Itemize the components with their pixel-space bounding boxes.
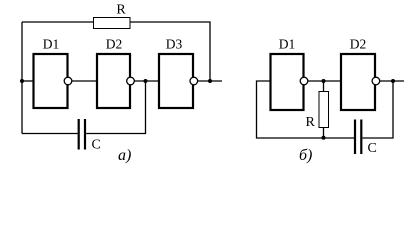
svg-text:C: C — [92, 138, 101, 153]
resistor R (right circuit) — [306, 81, 329, 138]
svg-text:D2: D2 — [350, 37, 367, 52]
svg-text:D1: D1 — [279, 37, 296, 52]
node: junction of feedback wire with D2 output — [391, 79, 395, 83]
wire: D2 output stub to the right — [380, 80, 404, 82]
node: junction at top of resistor R — [322, 79, 326, 83]
svg-text:D1: D1 — [43, 37, 60, 52]
wire: D1 output to D2 input — [308, 80, 341, 82]
inverter D1 (right circuit) — [271, 37, 308, 111]
wire: rail to D1 input — [22, 80, 33, 82]
svg-text:D3: D3 — [166, 37, 183, 52]
inverter D2 — [97, 37, 134, 109]
wire: left rail of circuit b (input of D1 down to bottom wire) — [257, 81, 355, 138]
svg-text:C: C — [368, 141, 377, 156]
wire: D3 output stub to the right — [198, 80, 222, 82]
wire: from R to right corner and down to D3 output node — [130, 22, 210, 81]
wire: from capacitor right plate up to D2 output node — [363, 81, 394, 138]
capacitor C (right circuit) — [355, 120, 377, 157]
capacitor C — [79, 119, 101, 153]
inverter D3 — [159, 37, 198, 109]
inverter D2 (right circuit) — [341, 37, 380, 111]
resistor R — [94, 3, 131, 29]
wire: from capacitor right plate up to D2-D3 node — [86, 81, 145, 134]
svg-text:а): а) — [118, 147, 131, 164]
inverter D1 — [34, 37, 72, 109]
wire: bottom wire from rail to capacitor C — [22, 133, 78, 135]
wire: top wire from rail to resistor R — [22, 21, 93, 23]
node: junction of feedback wire with D3 output — [208, 79, 212, 83]
node: junction between D2 output and D3 input (capacitor tap) — [144, 79, 148, 83]
wire: left rail of circuit a — [21, 22, 23, 134]
node: junction at bottom of resistor R on bottom wire — [322, 136, 326, 140]
svg-text:R: R — [306, 115, 316, 130]
wire: D2 output to D3 input — [134, 80, 159, 82]
svg-text:R: R — [116, 3, 126, 18]
wire: D1 output to D2 input — [72, 80, 97, 82]
svg-text:D2: D2 — [106, 37, 123, 52]
svg-text:б): б) — [299, 147, 312, 164]
node: junction on left rail at D1 input — [20, 79, 24, 83]
